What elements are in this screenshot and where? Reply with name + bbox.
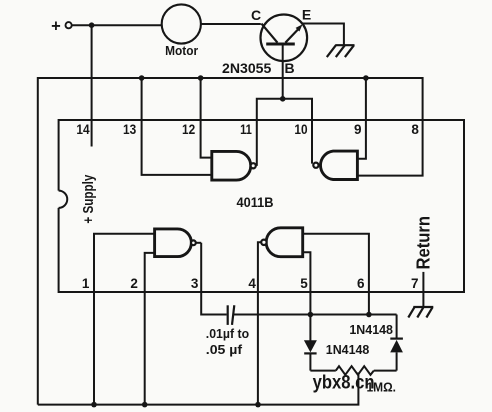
svg-text:B: B (285, 60, 295, 76)
svg-text:1N4148: 1N4148 (349, 323, 393, 337)
svg-text:+: + (51, 18, 61, 36)
svg-text:14: 14 (76, 122, 90, 137)
svg-text:C: C (251, 7, 261, 23)
svg-text:7: 7 (411, 276, 419, 291)
svg-text:9: 9 (354, 122, 362, 137)
svg-text:+ Supply: + Supply (80, 174, 97, 224)
svg-text:Return: Return (414, 216, 434, 270)
svg-text:11: 11 (240, 122, 252, 137)
svg-text:2: 2 (130, 276, 138, 291)
svg-text:12: 12 (182, 122, 195, 137)
svg-text:10: 10 (294, 122, 307, 137)
svg-text:2N3055: 2N3055 (222, 60, 272, 76)
svg-text:5: 5 (300, 276, 308, 291)
svg-text:ybx8.cn: ybx8.cn (313, 373, 375, 394)
svg-text:13: 13 (123, 122, 137, 137)
svg-text:1N4148: 1N4148 (326, 343, 370, 357)
svg-text:.05 µf: .05 µf (206, 342, 243, 357)
svg-text:3: 3 (191, 276, 199, 291)
svg-text:6: 6 (357, 276, 365, 291)
svg-text:Motor: Motor (165, 44, 198, 58)
svg-text:8: 8 (411, 122, 419, 137)
svg-text:4: 4 (248, 276, 256, 291)
svg-text:E: E (302, 6, 311, 22)
svg-text:1: 1 (82, 276, 90, 291)
svg-text:.01µf to: .01µf to (206, 326, 249, 341)
svg-text:4011B: 4011B (237, 194, 274, 210)
